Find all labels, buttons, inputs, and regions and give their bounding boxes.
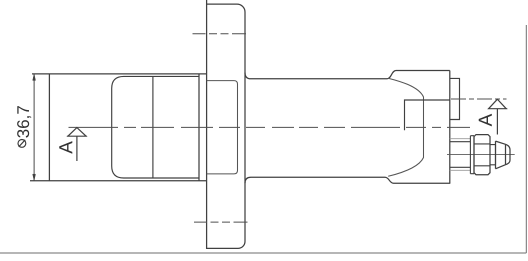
piston divider line — [152, 76, 154, 178]
port boss rectangle — [450, 78, 460, 119]
bolt hole centerline top — [193, 33, 250, 35]
barrel bottom edge with fillet — [245, 177, 450, 183]
label A left — [59, 141, 72, 154]
boss on flange face — [207, 81, 238, 174]
main centerline — [69, 126, 471, 128]
cylinder body housing — [30, 74, 207, 181]
diameter symbol — [18, 140, 26, 148]
bleed nipple cone — [496, 141, 506, 169]
washer — [470, 136, 474, 174]
dimension arrowheads — [33, 74, 36, 180]
section arrow right — [488, 99, 507, 134]
threaded stub inner lines — [450, 142, 471, 168]
section arrow left — [67, 128, 87, 161]
body/flange joint line — [198, 74, 200, 181]
barrel top edge with fillet — [245, 71, 450, 79]
groove collar — [490, 145, 496, 165]
hex nut — [474, 135, 490, 175]
label A right — [479, 114, 492, 127]
threaded stub outer lines — [450, 139, 471, 171]
mounting flange — [207, 0, 245, 248]
hex nut facet lines — [474, 144, 490, 166]
inlet port outline — [405, 100, 450, 130]
bleed nipple spherical cap — [506, 144, 511, 164]
port centerline — [451, 98, 507, 100]
cast neck profile — [388, 78, 423, 176]
dimension line — [33, 74, 35, 180]
body right edge — [449, 71, 451, 184]
dust boot — [112, 76, 199, 178]
bolt hole centerline bottom — [194, 221, 252, 223]
fitting centerline — [447, 154, 515, 156]
dimension text 36,7 — [17, 106, 31, 138]
